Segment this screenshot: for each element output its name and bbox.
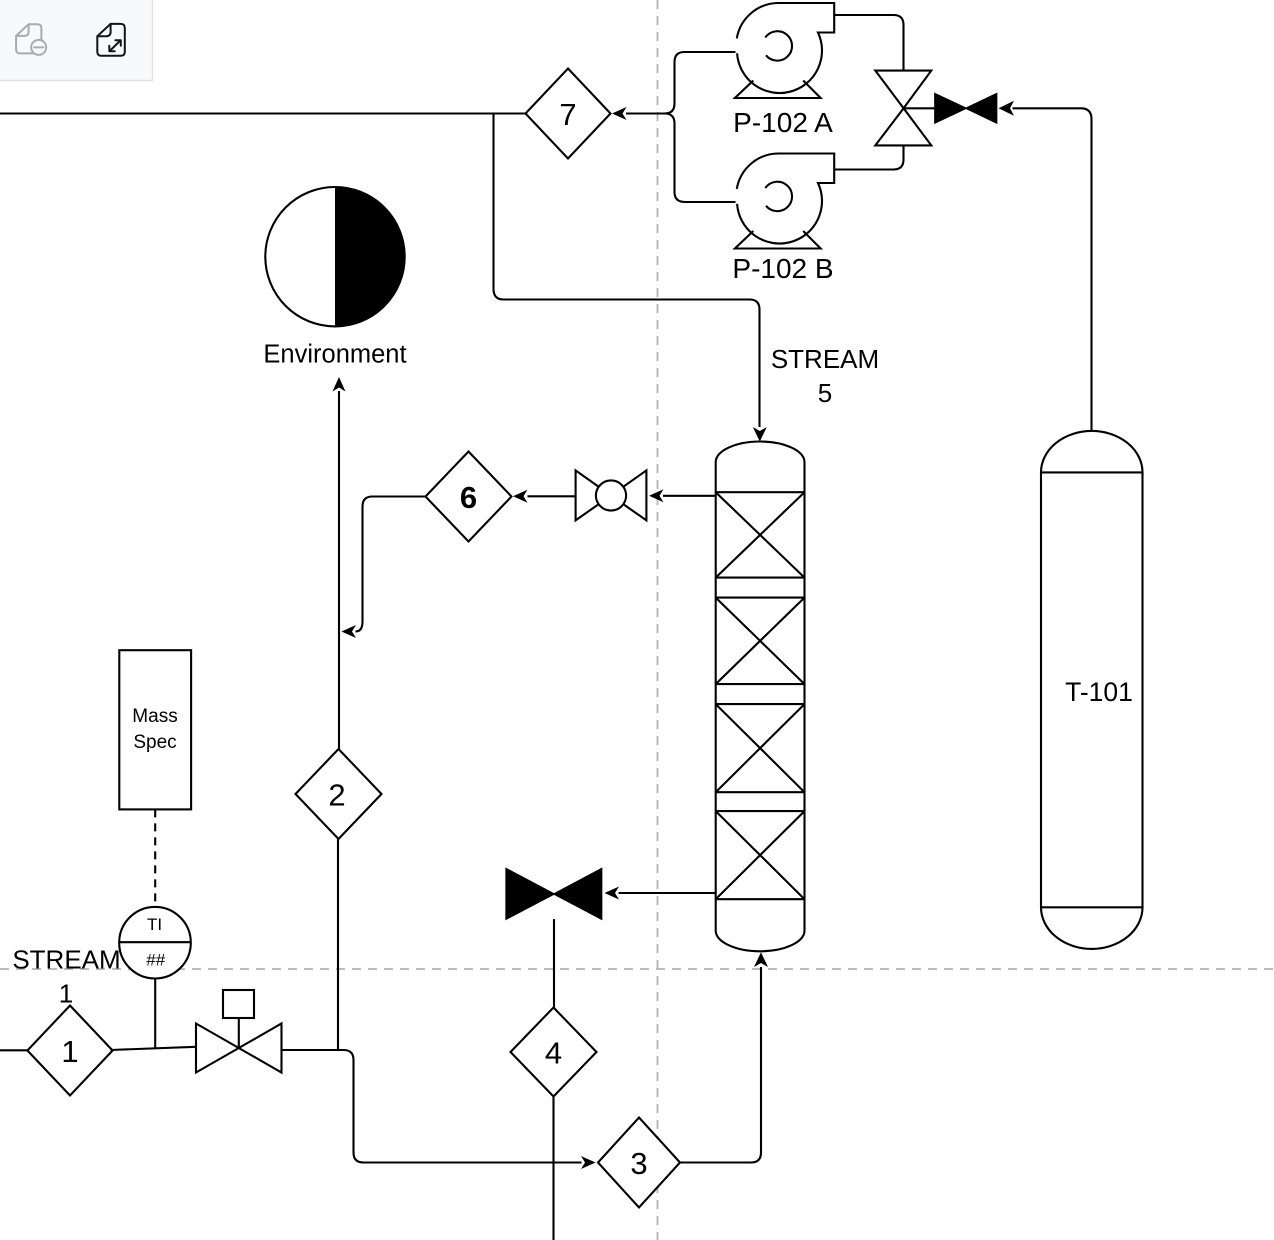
instrument TI <box>119 907 191 979</box>
dashed signal line Mass Spec to TI <box>154 809 156 907</box>
valve (closed/filled) bottoms <box>506 869 601 920</box>
wire: control valve to diamond 6 <box>528 495 576 497</box>
svg-text:4: 4 <box>545 1035 562 1070</box>
wire: diamond 6 to environment line <box>356 497 426 632</box>
packed column vessel <box>716 442 805 952</box>
svg-text:Environment: Environment <box>263 341 406 369</box>
pump P-102 B <box>732 154 834 285</box>
wire: diamond 2 down to feed pipe <box>337 839 339 1050</box>
wire: gate valve to check valve <box>904 107 935 109</box>
wire: TI tap to feed pipe <box>154 979 156 1048</box>
wire: pump A discharge to valve <box>834 15 903 71</box>
node diamond 3 <box>598 1118 680 1208</box>
arrowhead into diamond 7 (left) <box>612 107 627 120</box>
svg-text:STREAM: STREAM <box>12 945 120 975</box>
svg-text:1: 1 <box>61 1034 78 1069</box>
UI icon: remove page (gray) <box>16 24 46 55</box>
valve (gate, vertical) between pumps and check valve <box>875 71 931 146</box>
arrowhead into column bottom (up) <box>754 952 768 967</box>
wire: pump B discharge to valve <box>834 145 903 169</box>
wire: globe valve to diamond 3 <box>282 1050 582 1163</box>
arrowhead into diamond 6 (left) <box>513 490 528 503</box>
arrowhead to environment (up) <box>333 377 346 392</box>
wire: column overhead to control valve <box>663 495 716 497</box>
wire: closed valve down to diamond 4 <box>553 919 555 1007</box>
wire: stub from left edge to diamond 1 <box>0 1049 27 1051</box>
node diamond 7 <box>526 69 611 159</box>
svg-text:7: 7 <box>559 97 576 132</box>
svg-text:2: 2 <box>328 777 345 812</box>
svg-text:Spec: Spec <box>133 732 176 753</box>
arrowhead into environment line (left) <box>342 625 357 638</box>
svg-text:6: 6 <box>460 480 477 515</box>
node diamond 1 <box>27 1006 112 1096</box>
page separator horizontal dashed line <box>0 968 1274 970</box>
wire: column bottoms tap to closed valve <box>619 892 716 894</box>
UI toolbar panel top-left <box>0 0 153 81</box>
wire: diamond 3 to column bottom <box>680 967 761 1163</box>
arrowhead into closed valve (left) <box>605 887 620 900</box>
wire: from T-101 top to closed valve <box>1013 108 1092 431</box>
environment symbol (half filled circle) <box>263 187 406 369</box>
arrowhead into control valve (left) <box>649 489 664 502</box>
page separator vertical dashed line <box>657 0 659 1240</box>
UI icon: resize page (dark) <box>97 24 125 56</box>
svg-text:T-101: T-101 <box>1065 677 1133 707</box>
globe valve with actuator <box>196 990 282 1073</box>
wire: diamond 4 down to page bottom <box>552 1097 554 1240</box>
svg-text:##: ## <box>146 951 165 970</box>
wire: vent line up to environment <box>338 391 340 749</box>
wire: feed line from left edge to diamond 7 <box>0 112 526 114</box>
node diamond 4 <box>511 1008 597 1097</box>
vessel T-101 <box>1041 431 1143 949</box>
svg-text:5: 5 <box>818 378 832 408</box>
wire: diamond 1 to globe valve <box>111 1047 196 1050</box>
wire: pump A suction to diamond 7 <box>626 52 736 114</box>
svg-text:1: 1 <box>59 979 73 1009</box>
svg-text:P-102 B: P-102 B <box>732 253 833 284</box>
wire: branch down to STREAM 5 into column top <box>494 114 760 428</box>
svg-text:Mass: Mass <box>132 706 177 727</box>
node diamond 2 <box>296 749 382 839</box>
arrowhead into closed valve (left) <box>999 101 1015 116</box>
arrowhead into column top (down) <box>753 427 767 442</box>
pump P-102 A <box>733 3 834 138</box>
svg-text:TI: TI <box>147 915 162 934</box>
node diamond 6 <box>426 452 512 542</box>
arrowhead into diamond 3 (right) <box>581 1156 596 1169</box>
svg-text:P-102 A: P-102 A <box>733 107 833 138</box>
valve (closed/filled) top right <box>935 94 997 123</box>
control valve (ball valve) <box>576 470 647 520</box>
svg-text:3: 3 <box>630 1146 647 1181</box>
svg-text:STREAM: STREAM <box>771 344 879 374</box>
Mass Spec box <box>119 650 191 809</box>
wire: pump B suction joining feed <box>665 114 736 203</box>
